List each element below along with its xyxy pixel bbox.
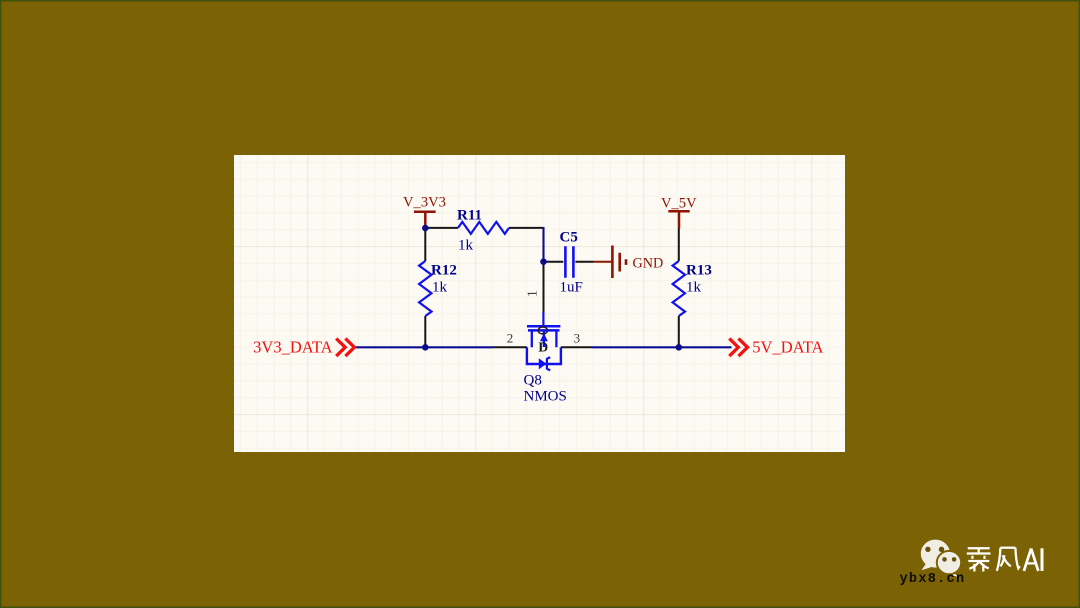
svg-text:1uF: 1uF bbox=[560, 280, 583, 296]
svg-text:2: 2 bbox=[507, 331, 514, 346]
svg-text:1k: 1k bbox=[458, 238, 474, 254]
svg-text:1: 1 bbox=[525, 290, 540, 297]
power port GND bbox=[594, 246, 664, 279]
svg-text:R13: R13 bbox=[686, 263, 712, 279]
watermark wechat logo bbox=[921, 540, 961, 578]
svg-text:3: 3 bbox=[574, 331, 581, 346]
svg-text:R11: R11 bbox=[457, 208, 482, 224]
svg-text:1k: 1k bbox=[686, 280, 702, 296]
svg-text:GND: GND bbox=[633, 256, 664, 272]
resistor R12 bbox=[419, 228, 457, 347]
svg-text:D: D bbox=[538, 339, 548, 354]
schematic sheet bbox=[234, 155, 845, 452]
junction node R11/R12/V_3V3 bbox=[422, 225, 429, 232]
svg-text:ybx8.cn: ybx8.cn bbox=[900, 572, 966, 587]
wire main left (3V3_DATA to Q8 pin2) bbox=[356, 346, 494, 348]
svg-text:1k: 1k bbox=[432, 280, 448, 296]
watermark text 霁风AI bbox=[967, 548, 1042, 572]
svg-text:NMOS: NMOS bbox=[524, 389, 567, 405]
svg-text:C5: C5 bbox=[560, 230, 578, 246]
svg-text:V_5V: V_5V bbox=[661, 195, 697, 211]
port 5V_DATA bbox=[729, 337, 823, 356]
wire main right (Q8 pin3 to 5V_DATA) bbox=[592, 346, 732, 348]
svg-text:3V3_DATA: 3V3_DATA bbox=[253, 337, 332, 356]
junction node R12/main wire bbox=[422, 344, 429, 351]
svg-text:5V_DATA: 5V_DATA bbox=[752, 337, 823, 356]
capacitor C5 bbox=[545, 230, 594, 296]
svg-text:V_3V3: V_3V3 bbox=[403, 194, 446, 210]
junction node R13/main wire bbox=[676, 344, 683, 351]
resistor R13 bbox=[673, 229, 712, 348]
junction node C5/gate bbox=[540, 258, 547, 265]
svg-text:Q8: Q8 bbox=[524, 373, 542, 389]
wire R11 corner to C5 node bbox=[542, 227, 544, 262]
svg-text:R12: R12 bbox=[431, 263, 457, 279]
power port V_5V bbox=[661, 195, 697, 228]
transistor Q8 bbox=[493, 262, 592, 405]
power port V_3V3 bbox=[403, 194, 446, 228]
resistor R11 bbox=[425, 208, 543, 254]
port 3V3_DATA bbox=[253, 337, 354, 356]
